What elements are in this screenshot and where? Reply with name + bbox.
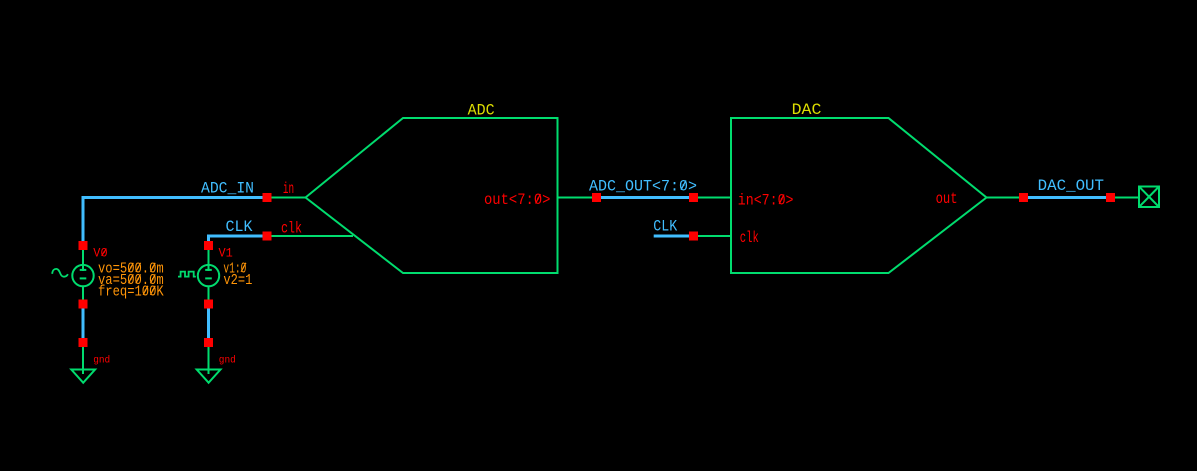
output port terminal DAC_OUT [1139, 187, 1159, 208]
DAC block U-DAC outline [731, 118, 987, 273]
pin label in<7:0> (DAC) [738, 192, 794, 210]
wire net CLK right [654, 235, 690, 238]
svg-text:out<7:0>: out<7:0> [484, 191, 551, 209]
wire V0 bottom to gnd [82, 302, 85, 344]
svg-text:clk: clk [740, 229, 759, 247]
pin square DAC_OUT port [1106, 193, 1115, 202]
parameter label vo=500.0m [98, 261, 164, 278]
pin label in (ADC) [283, 180, 294, 198]
net label DAC_OUT [1038, 177, 1104, 195]
instance label V1 [219, 247, 233, 261]
parameter label v1:0 [223, 261, 246, 278]
net label ADC_IN [201, 180, 254, 198]
svg-text:in<7:0>: in<7:0> [738, 192, 794, 210]
svg-text:DAC_OUT: DAC_OUT [1038, 177, 1104, 195]
voltage source V0 (sine) [52, 265, 94, 286]
pin square V1 minus [204, 300, 213, 309]
svg-text:V0: V0 [93, 247, 107, 261]
pin square V0 gnd [79, 338, 88, 347]
net label ADC_OUT<7:0> [589, 178, 697, 196]
instance name DAC [792, 101, 822, 119]
svg-text:ADC_IN: ADC_IN [201, 180, 254, 198]
pin label clk (DAC) [740, 229, 759, 247]
parameter label va=500.0m [98, 272, 164, 289]
wire stub DAC_OUT pin to port terminal [1114, 197, 1139, 199]
wire stub ADC out edge to pin [557, 197, 598, 199]
net label CLK left [226, 218, 254, 236]
wire stub clk-pin to ADC edge [271, 235, 353, 237]
net label CLK right [653, 217, 678, 235]
ADC block U-ADC outline [306, 118, 558, 273]
svg-text:clk: clk [281, 219, 302, 237]
svg-text:ADC: ADC [468, 102, 495, 120]
wire stub pin to DAC clk edge [693, 235, 731, 237]
pin label out (DAC) [936, 190, 958, 208]
pin square DAC clk [689, 232, 698, 241]
pin square DAC out [1019, 193, 1028, 202]
pin square ADC clk [263, 232, 272, 241]
svg-text:V1: V1 [219, 247, 233, 261]
svg-text:v2=1: v2=1 [223, 272, 252, 289]
wire V1 bottom to gnd [207, 302, 210, 344]
V0 source terminal stubs [82, 249, 84, 374]
pin square V1 plus [204, 241, 213, 250]
wire net CLK left (V1 to ADC clk pin) [209, 236, 264, 247]
V1 source terminal stubs [208, 249, 210, 374]
pin square V0 plus [79, 241, 88, 250]
ground symbol gnd (V0) [71, 370, 95, 383]
svg-text:gnd: gnd [219, 355, 236, 367]
svg-text:CLK: CLK [226, 218, 254, 236]
svg-text:DAC: DAC [792, 101, 822, 119]
voltage source V1 (pulse) [178, 265, 219, 286]
pin square ADC out [592, 193, 601, 202]
wire stub DAC apex to out pin [986, 197, 1020, 199]
instance label V0 [93, 247, 107, 261]
wire net DAC_OUT [1027, 196, 1107, 199]
pin square V0 minus [79, 300, 88, 309]
pin label gnd (V0) [93, 355, 110, 367]
wire stub pin to DAC in edge [693, 197, 731, 199]
wire net ADC_IN (V0 to ADC in pin) [83, 198, 264, 248]
pin square DAC in [689, 193, 698, 202]
instance name ADC [468, 102, 495, 120]
pin label clk (ADC) [281, 219, 302, 237]
parameter label v2=1 [223, 272, 252, 289]
wire net ADC_OUT bus [599, 196, 691, 199]
pin square ADC in [263, 193, 272, 202]
svg-text:gnd: gnd [93, 355, 110, 367]
svg-text:in: in [283, 180, 294, 198]
pin label gnd (V1) [219, 355, 236, 367]
svg-text:freq=100K: freq=100K [98, 284, 164, 301]
svg-text:ADC_OUT<7:0>: ADC_OUT<7:0> [589, 178, 697, 196]
ground symbol gnd (V1) [197, 370, 221, 383]
parameter label freq=100K [98, 284, 164, 301]
svg-text:out: out [936, 190, 958, 208]
pin square V1 gnd [204, 338, 213, 347]
wire stub in-pin to ADC apex [271, 197, 306, 199]
svg-text:CLK: CLK [653, 217, 678, 235]
pin label out<7:0> (ADC) [484, 191, 551, 209]
